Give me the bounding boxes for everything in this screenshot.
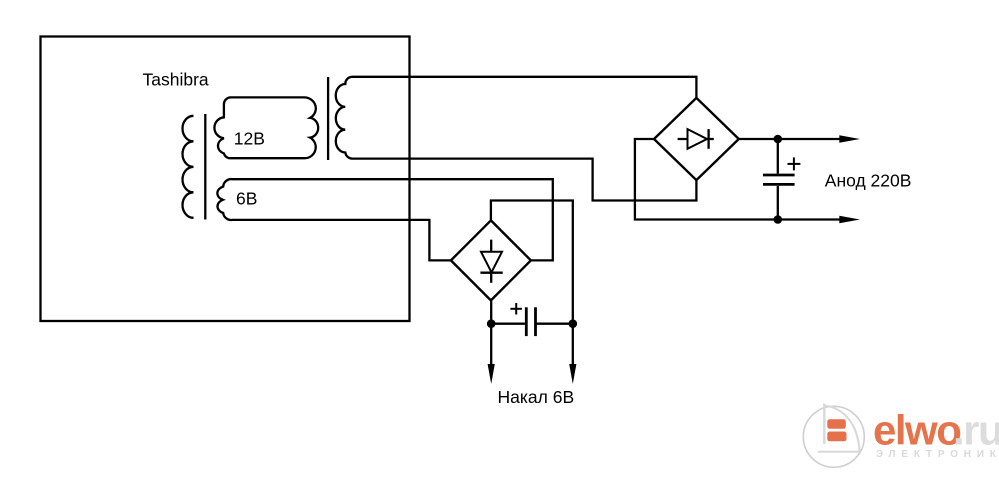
svg-text:12В: 12В [234,129,265,149]
svg-text:Накал 6В: Накал 6В [498,387,575,407]
svg-text:elwo: elwo [873,407,961,454]
svg-text:Tashibra: Tashibra [143,69,209,89]
svg-text:ЭЛЕКТРОНИК: ЭЛЕКТРОНИК [876,449,999,460]
svg-text:.ru: .ru [953,407,999,454]
svg-text:Анод 220В: Анод 220В [825,171,912,191]
svg-text:6В: 6В [236,189,257,209]
